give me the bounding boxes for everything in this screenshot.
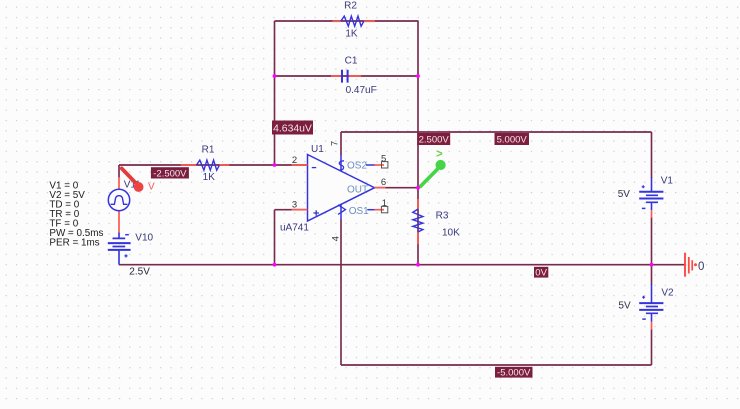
- svg-text:5V: 5V: [618, 189, 631, 200]
- wire ground rail: [119, 264, 685, 266]
- junction inverting input: [273, 163, 277, 167]
- wire feedback left vertical: [274, 21, 276, 165]
- wire OUT horizontal: [375, 187, 419, 189]
- svg-text:3: 3: [292, 200, 297, 211]
- junction pin3 ground: [273, 263, 277, 267]
- svg-text:OUT: OUT: [347, 185, 368, 196]
- wire feedback right vertical to OUT: [417, 21, 419, 188]
- wire input net horizontal: [119, 164, 308, 166]
- minus input mark: [312, 167, 316, 169]
- resistor R1: [181, 144, 230, 183]
- svg-text:-2.500V: -2.500V: [153, 168, 187, 179]
- svg-text:2.500V: 2.500V: [419, 135, 450, 146]
- wire ground rail to V2 top: [651, 265, 653, 285]
- wire V- rail horizontal: [341, 364, 652, 366]
- svg-text:V2: V2: [661, 287, 674, 298]
- wire feedback top horizontal: [275, 20, 419, 22]
- svg-text:R2: R2: [344, 0, 357, 11]
- wire R3 vertical: [417, 188, 419, 265]
- wire pin3 vertical to ground rail: [274, 210, 276, 265]
- svg-text:5.000V: 5.000V: [497, 135, 528, 146]
- capacitor C1: [331, 56, 377, 96]
- svg-text:0.47uF: 0.47uF: [346, 85, 377, 96]
- OS1 chevron: [338, 205, 346, 215]
- dc source V10: [108, 232, 154, 277]
- wire pin7 vertical: [340, 132, 342, 155]
- svg-text:-5.000V: -5.000V: [497, 368, 531, 379]
- svg-text:5: 5: [381, 153, 386, 164]
- JUNCTIONS: [273, 74, 654, 267]
- svg-text:0V: 0V: [535, 268, 547, 279]
- node label -2.500V: [151, 167, 189, 179]
- svg-text:1K: 1K: [345, 28, 358, 39]
- svg-text:uA741: uA741: [280, 222, 309, 233]
- ground 0: [685, 253, 704, 277]
- svg-text:PER = 1ms: PER = 1ms: [49, 237, 99, 248]
- wire right top vertical to V1: [651, 132, 653, 178]
- svg-text:10K: 10K: [442, 227, 460, 238]
- OS1 lead and pin 1: [367, 209, 374, 211]
- junction C1 left: [273, 74, 277, 78]
- wire V+ rail horizontal: [341, 131, 652, 133]
- OS2 squiggle: [339, 161, 344, 171]
- plus input mark: [313, 210, 319, 216]
- wire C1 branch horizontal: [275, 75, 419, 77]
- svg-text:1K: 1K: [203, 172, 216, 183]
- svg-text:U1: U1: [311, 144, 324, 155]
- pin 2 stub: [292, 164, 308, 166]
- V11 parameter list: [49, 181, 103, 249]
- wire V11 top vertical: [118, 165, 120, 178]
- pin 4 lead: [340, 204, 342, 220]
- junction R3 ground: [416, 263, 420, 267]
- svg-text:6: 6: [381, 177, 386, 188]
- junction OUT node: [416, 186, 420, 190]
- pulse source V11: [108, 177, 141, 232]
- resistor R2: [333, 0, 376, 39]
- svg-text:2: 2: [292, 155, 297, 166]
- resistor R3: [413, 199, 460, 244]
- svg-text:V1: V1: [661, 175, 674, 186]
- svg-text:1: 1: [382, 198, 387, 209]
- svg-text:C1: C1: [345, 56, 358, 67]
- junction supply midpoint: [650, 263, 654, 267]
- wire V1 bottom to ground rail: [651, 217, 653, 265]
- svg-text:OS1: OS1: [349, 206, 369, 217]
- svg-text:R3: R3: [436, 211, 449, 222]
- node label 5.000V: [495, 133, 530, 146]
- svg-text:2.5V: 2.5V: [129, 266, 150, 277]
- svg-text:5V: 5V: [618, 301, 631, 312]
- wire pin4 vertical down: [340, 220, 342, 366]
- wire pin3 horizontal: [275, 209, 308, 211]
- dc source V2: [618, 284, 674, 330]
- svg-text:7: 7: [330, 141, 341, 146]
- pin 7 lead: [340, 155, 342, 172]
- node label 2.500V: [417, 133, 450, 146]
- svg-text:V: V: [148, 182, 155, 193]
- wire V2 bottom vertical: [651, 329, 653, 365]
- voltage marker red (V): [122, 168, 155, 192]
- svg-text:>: >: [436, 148, 443, 160]
- svg-text:V10: V10: [135, 233, 153, 244]
- op-amp output stub pin 6: [375, 187, 386, 189]
- op-amp U1 uA741: [280, 141, 388, 241]
- voltage marker green: [421, 148, 446, 186]
- node label 0V: [534, 267, 548, 279]
- dc source V1: [618, 175, 674, 218]
- svg-text:OS2: OS2: [347, 161, 367, 172]
- svg-text:4.634uV: 4.634uV: [273, 123, 312, 134]
- OS2 lead and pin 5: [366, 164, 375, 166]
- svg-text:R1: R1: [202, 144, 215, 155]
- pin 3 stub: [292, 209, 308, 211]
- svg-text:0: 0: [698, 261, 704, 273]
- svg-text:4: 4: [331, 236, 342, 241]
- node label 4.634uV: [272, 121, 313, 135]
- junction C1 right: [416, 74, 420, 78]
- node label -5.000V: [495, 367, 533, 379]
